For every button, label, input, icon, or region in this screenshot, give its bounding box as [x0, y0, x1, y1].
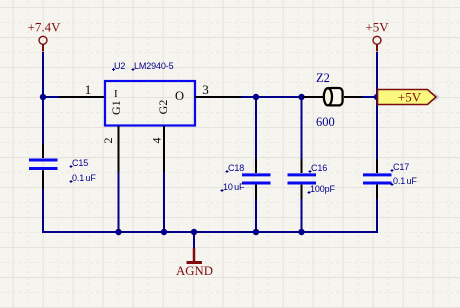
- value 100pF: [308, 184, 336, 194]
- designator C18: [226, 163, 245, 173]
- capacitor C17: [363, 159, 392, 199]
- value 10 uF: [221, 182, 246, 192]
- junction C18 bottom: [253, 229, 259, 235]
- inductor Z2 ferrite bead: [303, 88, 363, 105]
- svg-text:I: I: [114, 88, 118, 100]
- pin 4 of U2: [150, 126, 165, 172]
- svg-text:LM2940-5: LM2940-5: [134, 61, 174, 71]
- wire C18 upper: [255, 97, 257, 159]
- wire pin4 down: [163, 172, 165, 232]
- capacitor C18: [242, 159, 271, 199]
- pin name I: [114, 88, 118, 100]
- designator Z2: [316, 71, 330, 85]
- pin 3 of U2: [195, 82, 241, 97]
- svg-text:G2: G2: [156, 100, 170, 115]
- port +5V flag: [378, 90, 439, 105]
- value LM2940-5: [132, 61, 174, 71]
- pin 2 of U2: [101, 126, 119, 172]
- wire node A to C15: [42, 97, 44, 144]
- svg-text:C16: C16: [311, 163, 327, 173]
- pin name O: [175, 89, 184, 103]
- power port +7.4V: [28, 20, 62, 52]
- wire C16 upper: [301, 97, 303, 159]
- wire Z2 to node B: [362, 96, 377, 98]
- ground AGND: [176, 248, 213, 278]
- junction node A: [40, 94, 46, 100]
- svg-text:100pF: 100pF: [310, 184, 336, 194]
- value 600: [316, 115, 335, 129]
- svg-text:+7.4V: +7.4V: [28, 20, 62, 35]
- svg-text:4: 4: [150, 138, 164, 144]
- svg-text:C17: C17: [393, 162, 409, 172]
- value 0.1 uF C15: [70, 173, 97, 183]
- wire C17 lower: [376, 199, 378, 233]
- svg-text:10 uF: 10 uF: [223, 182, 245, 192]
- junction AGND: [191, 229, 197, 235]
- wire C15 lower: [42, 189, 44, 233]
- pin 1 of U2: [59, 82, 104, 97]
- pin name G2: [156, 100, 170, 115]
- wire C16 lower: [301, 199, 303, 232]
- capacitor C16: [288, 159, 317, 199]
- svg-text:1: 1: [85, 82, 92, 97]
- value 0.1 uF C17: [391, 176, 418, 186]
- svg-text:0.1 uF: 0.1 uF: [393, 176, 417, 186]
- capacitor C15: [29, 144, 58, 189]
- junction C16 top: [298, 94, 304, 100]
- junction node B: [374, 94, 380, 100]
- svg-text:+5V: +5V: [398, 90, 422, 105]
- designator C15: [70, 158, 89, 168]
- svg-text:G1: G1: [109, 100, 123, 115]
- designator U2: [112, 61, 125, 71]
- junction pin4 bottom: [161, 229, 167, 235]
- svg-text:C18: C18: [228, 163, 244, 173]
- svg-text:U2: U2: [114, 61, 125, 71]
- designator C17: [391, 162, 410, 172]
- svg-text:+5V: +5V: [365, 20, 389, 35]
- svg-text:2: 2: [101, 138, 115, 144]
- wire pin2 down: [118, 172, 120, 232]
- pin name G1: [109, 100, 123, 115]
- svg-text:AGND: AGND: [176, 264, 213, 278]
- svg-text:C15: C15: [72, 158, 88, 168]
- svg-text:3: 3: [202, 82, 209, 97]
- wire C18 lower: [255, 199, 257, 232]
- wire AGND stub: [193, 232, 195, 248]
- svg-text:0.1 uF: 0.1 uF: [72, 173, 96, 183]
- junction C18 top: [253, 94, 259, 100]
- junction pin2 bottom: [115, 229, 121, 235]
- wire +7.4V vertical: [42, 52, 44, 97]
- wire pin3 to Z2: [241, 96, 303, 98]
- svg-text:Z2: Z2: [316, 71, 330, 85]
- wire bottom bus: [42, 231, 378, 233]
- svg-text:600: 600: [316, 115, 335, 129]
- power port +5V: [365, 20, 389, 52]
- wire node B to C17: [376, 97, 378, 159]
- svg-text:O: O: [175, 89, 184, 103]
- wire +5V vertical: [376, 52, 378, 97]
- designator C16: [309, 163, 328, 173]
- wire node A to pin1: [42, 96, 59, 98]
- junction C16 bottom: [298, 229, 304, 235]
- op-amp U2 regulator body: [105, 81, 195, 126]
